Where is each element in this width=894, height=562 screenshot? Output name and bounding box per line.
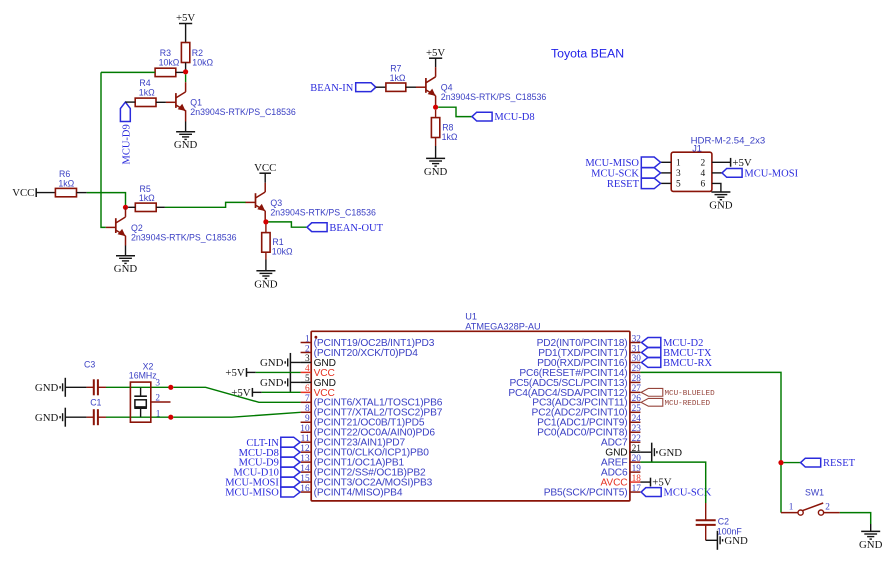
svg-text:MCU-D9: MCU-D9 xyxy=(121,124,132,164)
svg-text:1kΩ: 1kΩ xyxy=(58,178,74,188)
svg-text:GND: GND xyxy=(35,382,59,394)
wire MCU-D9 flag to R4 xyxy=(125,101,135,103)
connector J1 HDR-M-2.54_2x3 body xyxy=(671,135,765,191)
svg-text:RESET: RESET xyxy=(607,179,640,190)
net label RESET (J1 pin5) xyxy=(607,178,661,190)
svg-text:31: 31 xyxy=(632,344,642,354)
ground GND below Q1 xyxy=(174,132,198,152)
ground GND (U1 pin3) xyxy=(260,353,301,372)
svg-text:1kΩ: 1kΩ xyxy=(442,132,458,142)
pin 13 U1 (PCINT1/OC1A)PB1 xyxy=(300,454,404,469)
resistor R4 xyxy=(135,78,156,106)
svg-text:MCU-BLUELED: MCU-BLUELED xyxy=(665,390,716,398)
pin 4 wire J1 xyxy=(712,172,722,174)
svg-text:1: 1 xyxy=(305,334,310,344)
svg-text:4: 4 xyxy=(305,364,310,374)
node junction Q4 emitter/R8/MCU-D8 xyxy=(433,105,438,110)
svg-text:1: 1 xyxy=(789,503,794,513)
svg-text:22: 22 xyxy=(632,434,642,444)
svg-text:26: 26 xyxy=(632,394,642,404)
svg-text:10kΩ: 10kΩ xyxy=(272,246,293,256)
svg-text:PB5(SCK/PCINT5): PB5(SCK/PCINT5) xyxy=(544,487,628,498)
wire crystal top to U1 pin7 (XTAL1) xyxy=(173,387,300,402)
pin 6 wire J1 to GND xyxy=(712,183,721,192)
svg-text:12: 12 xyxy=(300,444,310,454)
net label BMCU-TX (U1 pin31) xyxy=(642,347,712,359)
svg-text:BMCU-RX: BMCU-RX xyxy=(663,358,712,369)
svg-text:GND: GND xyxy=(424,166,448,178)
node junction crystal bottom xyxy=(168,415,173,420)
net label MCU-D8 (U1 pin 12) xyxy=(239,447,300,459)
svg-text:(PCINT4/MISO)PB4: (PCINT4/MISO)PB4 xyxy=(314,487,403,498)
power +5V (top of R2) xyxy=(176,12,195,24)
pin 21 U1 GND xyxy=(605,444,641,459)
svg-text:GND: GND xyxy=(709,200,733,212)
svg-text:25: 25 xyxy=(632,404,642,414)
capacitor C1 xyxy=(87,397,106,425)
svg-text:ATMEGA328P-AU: ATMEGA328P-AU xyxy=(465,321,540,331)
svg-text:24: 24 xyxy=(632,414,642,424)
pin 14 U1 (PCINT2/SS#/OC1B)PB2 xyxy=(300,464,426,479)
svg-text:5: 5 xyxy=(305,374,310,384)
pin 16 U1 (PCINT4/MISO)PB4 xyxy=(300,484,403,499)
pin 23 U1 PC0(ADC0/PCINT8) xyxy=(537,424,641,439)
wire node to RESET flag xyxy=(784,462,801,464)
ground GND below SW1 xyxy=(859,531,883,551)
svg-text:23: 23 xyxy=(632,424,642,434)
svg-text:Q1: Q1 xyxy=(190,98,202,108)
svg-text:10: 10 xyxy=(300,424,310,434)
svg-text:J1: J1 xyxy=(692,144,702,154)
svg-text:VCC: VCC xyxy=(12,187,34,199)
power +5V (U1 pin6) xyxy=(231,387,300,399)
net label CLT-IN (U1 pin 11) xyxy=(246,437,300,449)
svg-text:1kΩ: 1kΩ xyxy=(390,73,406,83)
svg-text:9: 9 xyxy=(305,414,310,424)
svg-text:+5V: +5V xyxy=(652,477,671,489)
wire R1 to GND xyxy=(265,252,267,271)
ground GND (left of C3) xyxy=(35,378,65,397)
pin 1 wire J1 xyxy=(661,161,672,163)
svg-text:GND: GND xyxy=(114,263,138,275)
switch SW1 xyxy=(781,487,840,515)
svg-text:21: 21 xyxy=(632,444,642,454)
pin 24 U1 PC1(ADC1/PCINT9) xyxy=(537,414,641,429)
svg-text:1kΩ: 1kΩ xyxy=(139,193,155,203)
node junction crystal top xyxy=(168,385,173,390)
svg-text:BEAN-IN: BEAN-IN xyxy=(310,83,354,94)
svg-text:SW1: SW1 xyxy=(805,487,824,497)
svg-text:14: 14 xyxy=(300,464,310,474)
schematic title Toyota BEAN xyxy=(551,47,624,61)
svg-text:MCU-REDLED: MCU-REDLED xyxy=(665,400,711,408)
svg-text:1kΩ: 1kΩ xyxy=(139,88,155,98)
svg-text:GND: GND xyxy=(724,535,748,547)
wire Q3 emitter to node xyxy=(264,211,266,222)
svg-text:2n3904S-RTK/PS_C18536: 2n3904S-RTK/PS_C18536 xyxy=(190,107,296,117)
pin 1 U1 (PCINT19/OC2B/INT1)PD3 xyxy=(301,334,435,349)
ground GND (below C2) xyxy=(717,531,748,550)
svg-text:+5V: +5V xyxy=(225,367,244,379)
wire R5 to Q3 base xyxy=(156,202,246,207)
svg-text:Q3: Q3 xyxy=(270,198,282,208)
power VCC (left) xyxy=(12,187,36,199)
wire GND to C1 xyxy=(65,416,86,418)
svg-text:17: 17 xyxy=(632,484,642,494)
svg-text:+5V: +5V xyxy=(176,12,195,24)
power +5V (top of Q4) xyxy=(426,47,445,59)
ground GND below J1 xyxy=(709,192,733,212)
pin 32 U1 PD2(INT0/PCINT18) xyxy=(537,334,642,349)
wire C2 to GND xyxy=(706,539,718,541)
svg-text:3: 3 xyxy=(676,169,681,179)
pin 15 U1 (PCINT3/OC2A/MOSI)PB3 xyxy=(300,474,432,489)
svg-text:2n3904S-RTK/PS_C18536: 2n3904S-RTK/PS_C18536 xyxy=(441,92,547,102)
wire R6 to node above Q2 xyxy=(77,193,126,208)
net label MCU-D9 (U1 pin 13) xyxy=(239,457,300,469)
net label MCU-SCK (J1 pin3) xyxy=(591,168,660,180)
svg-text:Q2: Q2 xyxy=(131,223,143,233)
pin 2 wire J1 to +5V xyxy=(712,161,731,163)
wire green from vertical bus to R3 xyxy=(101,71,155,73)
pin 4 U1 VCC xyxy=(301,364,335,379)
svg-text:16MHz: 16MHz xyxy=(129,371,157,381)
resistor R7 xyxy=(386,64,406,92)
pin 7 U1 (PCINT6/XTAL1/TOSC1)PB6 xyxy=(301,394,443,409)
svg-text:R6: R6 xyxy=(59,169,70,179)
wire node to BEAN-OUT flag xyxy=(269,222,308,227)
svg-text:+5V: +5V xyxy=(426,47,445,59)
pin 2 U1 (PCINT20/XCK/T0)PD4 xyxy=(301,344,419,359)
svg-text:32: 32 xyxy=(632,334,642,344)
svg-text:8: 8 xyxy=(305,404,310,414)
wire GND to C3 xyxy=(65,386,86,388)
power +5V (J1 pin2) xyxy=(731,157,752,169)
svg-text:MCU-SCK: MCU-SCK xyxy=(664,488,712,499)
net label MCU-MOSI (U1 pin 15) xyxy=(225,477,300,489)
wire R3 right lead to node xyxy=(176,71,186,73)
svg-text:R8: R8 xyxy=(442,122,453,132)
svg-text:C1: C1 xyxy=(90,397,101,407)
net label RESET xyxy=(801,458,856,469)
hierarchical label MCU-REDLED (U1 pin26) xyxy=(641,398,710,408)
svg-text:3: 3 xyxy=(155,379,160,389)
svg-text:BEAN-OUT: BEAN-OUT xyxy=(329,223,383,234)
power +5V (U1 pin4) xyxy=(225,367,300,379)
svg-text:MCU-D8: MCU-D8 xyxy=(494,112,534,123)
svg-text:16: 16 xyxy=(300,484,310,494)
svg-text:GND: GND xyxy=(174,139,198,151)
pin 27 U1 PC4(ADC4/SDA/PCINT12) xyxy=(508,384,641,399)
transistor Q3 xyxy=(246,183,376,218)
svg-text:1: 1 xyxy=(156,410,161,420)
svg-text:C2: C2 xyxy=(718,517,729,527)
svg-text:6: 6 xyxy=(700,180,705,190)
net label MCU-D8 xyxy=(472,112,535,123)
wire C3 to crystal node (top) xyxy=(106,386,171,388)
pin 31 U1 PD1(TXD/PCINT17) xyxy=(538,344,641,359)
ground GND below Q2 xyxy=(114,256,138,276)
svg-text:10kΩ: 10kΩ xyxy=(192,57,213,67)
wire BEAN-IN to R7 xyxy=(376,86,386,88)
pin 28 U1 PC5(ADC5/SCL/PCINT13) xyxy=(509,374,641,389)
pin 18 U1 AVCC xyxy=(601,474,642,489)
svg-text:29: 29 xyxy=(632,364,642,374)
svg-text:27: 27 xyxy=(632,384,642,394)
pin 5 U1 GND xyxy=(301,374,336,389)
net label BMCU-RX (U1 pin30) xyxy=(642,357,713,369)
wire R7 to Q4 base xyxy=(406,86,416,88)
wire +5V to R2 xyxy=(185,24,187,43)
svg-text:R2: R2 xyxy=(192,48,203,58)
svg-text:Toyota BEAN: Toyota BEAN xyxy=(551,47,624,61)
pin 25 U1 PC2(ADC2/PCINT10) xyxy=(532,404,642,419)
svg-text:13: 13 xyxy=(300,454,310,464)
svg-text:11: 11 xyxy=(301,434,310,444)
IC U1 ATMEGA328P-AU body xyxy=(311,311,630,501)
wire R4 to Q1 base xyxy=(156,101,166,103)
wire R2 to node xyxy=(185,63,187,72)
net label BEAN-IN xyxy=(310,83,376,94)
power VCC (top of Q3) xyxy=(254,162,276,174)
pin 6 U1 VCC xyxy=(301,384,335,399)
resistor R3 xyxy=(155,48,180,77)
svg-text:30: 30 xyxy=(632,354,642,364)
svg-text:MCU-SCK: MCU-SCK xyxy=(591,169,639,180)
pin 3 U1 GND xyxy=(301,354,336,369)
pin 30 U1 PD0(RXD/PCINT16) xyxy=(537,354,641,369)
svg-text:GND: GND xyxy=(260,377,284,389)
node junction R2/R3/Q1 collector xyxy=(183,69,188,74)
hierarchical label MCU-BLUELED (U1 pin27) xyxy=(641,388,715,398)
capacitor C2 100nF xyxy=(696,503,743,540)
wire crystal bottom to U1 pin8 (XTAL2) xyxy=(173,412,300,417)
svg-text:10kΩ: 10kΩ xyxy=(159,57,180,67)
wire U1 pin20 AREF to C2 xyxy=(640,462,705,503)
svg-text:GND: GND xyxy=(254,278,278,290)
svg-text:20: 20 xyxy=(632,454,642,464)
node junction R6/R5/Q2 collector xyxy=(123,205,128,210)
wire C1 to crystal node (bottom) xyxy=(106,416,171,418)
svg-text:Q4: Q4 xyxy=(441,83,453,93)
resistor R1 xyxy=(262,225,293,257)
svg-text:2: 2 xyxy=(700,159,705,169)
pin 17 U1 PB5(SCK/PCINT5) xyxy=(544,484,642,499)
svg-text:RESET: RESET xyxy=(823,458,856,469)
pin 12 U1 (PCINT0/CLKO/ICP1)PB0 xyxy=(300,444,429,459)
capacitor C3 xyxy=(84,360,106,396)
net label MCU-D2 (U1 pin32) xyxy=(642,338,704,350)
pin 29 U1 PC6(RESET#/PCINT14) xyxy=(519,364,641,379)
net label MCU-MOSI (J1 pin4) xyxy=(722,169,799,180)
pin 8 U1 (PCINT7/XTAL2/TOSC2)PB7 xyxy=(301,404,443,419)
wire vertical green bus R3-to-Q2 xyxy=(101,72,106,227)
wire node to Q1 collector xyxy=(185,74,187,82)
resistor R6 xyxy=(55,169,76,197)
svg-text:28: 28 xyxy=(632,374,642,384)
svg-text:19: 19 xyxy=(632,464,642,474)
svg-text:GND: GND xyxy=(859,539,883,551)
pin 2 stub X2 xyxy=(151,401,171,403)
ground GND (left of C1) xyxy=(35,408,65,427)
svg-text:MCU-MISO: MCU-MISO xyxy=(585,158,639,169)
svg-text:3: 3 xyxy=(305,354,310,364)
power +5V (U1 pin18) xyxy=(640,477,671,489)
pin 26 U1 PC3(ADC3/PCINT11) xyxy=(532,394,641,409)
resistor R8 xyxy=(431,110,457,142)
ground GND (U1 pin21) xyxy=(640,443,682,462)
svg-text:GND: GND xyxy=(35,412,59,424)
pin 19 U1 ADC6 xyxy=(601,464,641,479)
resistor R2 xyxy=(181,43,213,68)
net label BEAN-OUT xyxy=(307,223,384,234)
transistor Q2 xyxy=(106,207,237,242)
svg-text:VCC: VCC xyxy=(254,162,276,174)
node junction Q3 emitter/R1/BEAN-OUT xyxy=(263,219,268,224)
svg-text:2n3904S-RTK/PS_C18536: 2n3904S-RTK/PS_C18536 xyxy=(270,207,376,217)
net label MCU-MISO (J1 pin1) xyxy=(585,157,660,169)
svg-text:1: 1 xyxy=(676,159,681,169)
pin 10 U1 (PCINT22/OC0A/AIN0)PD6 xyxy=(300,424,435,439)
svg-text:2n3904S-RTK/PS_C18536: 2n3904S-RTK/PS_C18536 xyxy=(131,232,237,242)
wire Q1 emitter to GND xyxy=(185,110,187,131)
net label MCU-MISO (U1 pin 16) xyxy=(225,487,300,499)
svg-text:U1: U1 xyxy=(465,311,477,321)
pin 3 wire J1 xyxy=(661,172,672,174)
ground GND (U1 pin5) xyxy=(260,373,301,392)
node junction RESET branch xyxy=(778,460,783,465)
wire Q4 emitter to node xyxy=(435,96,437,108)
net label MCU-SCK (U1 pin17) xyxy=(641,488,712,499)
wire VCC to Q3 collector xyxy=(264,173,266,183)
wire SW1 to GND xyxy=(840,513,871,532)
wire +5V to Q4 collector xyxy=(435,58,437,67)
crystal X2 16MHz xyxy=(129,361,161,422)
svg-text:18: 18 xyxy=(632,474,642,484)
svg-text:MCU-MOSI: MCU-MOSI xyxy=(744,169,798,180)
svg-text:C3: C3 xyxy=(84,360,95,370)
net label MCU-D10 (U1 pin 14) xyxy=(233,467,300,479)
svg-text:5: 5 xyxy=(676,180,681,190)
svg-text:2: 2 xyxy=(305,344,310,354)
transistor Q4 xyxy=(416,67,546,102)
svg-text:4: 4 xyxy=(700,169,705,179)
pin 9 U1 (PCINT21/OC0B/T1)PD5 xyxy=(301,414,425,429)
svg-text:7: 7 xyxy=(305,394,310,404)
pin 5 wire J1 xyxy=(661,182,672,184)
wire Q2 emitter to GND xyxy=(125,236,127,256)
svg-text:6: 6 xyxy=(305,384,310,394)
wire node to MCU-D8 flag xyxy=(438,107,472,116)
ground GND below R1 xyxy=(254,271,278,291)
wire U1 pin29 to SW1 xyxy=(640,372,781,512)
svg-text:R3: R3 xyxy=(160,48,171,58)
svg-text:2: 2 xyxy=(825,503,830,513)
pin 11 U1 (PCINT23/AIN1)PD7 xyxy=(301,434,406,449)
pin 22 U1 ADC7 xyxy=(601,434,641,449)
svg-text:GND: GND xyxy=(260,357,284,369)
wire node to R5 xyxy=(128,206,135,208)
wire R8 to GND xyxy=(435,138,437,159)
svg-text:15: 15 xyxy=(300,474,310,484)
svg-text:GND: GND xyxy=(659,447,683,459)
transistor Q1 xyxy=(166,82,296,117)
pin 20 U1 AREF xyxy=(601,454,641,469)
net label MCU-D9 (vertical flag) xyxy=(120,102,132,164)
wire VCC to R6 xyxy=(36,192,55,194)
resistor R5 xyxy=(135,184,156,212)
svg-text:+5V: +5V xyxy=(732,157,751,169)
svg-text:R1: R1 xyxy=(272,237,283,247)
ground GND below R8 xyxy=(424,158,448,178)
svg-text:MCU-MISO: MCU-MISO xyxy=(225,488,279,499)
